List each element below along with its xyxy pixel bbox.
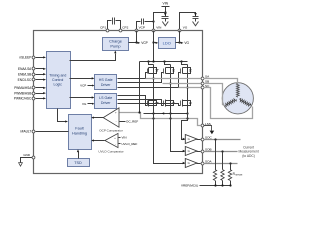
resistor R_SENSE phase C [213,170,216,181]
svg-text:VIN: VIN [156,26,161,30]
svg-text:LDO: LDO [163,40,171,45]
wire LDO output to VG [176,42,180,44]
block LDO [159,38,176,49]
wire drain rail VIN [140,61,188,63]
svg-text:(to ADC): (to ADC) [242,154,255,158]
svg-text:PWMB/HSB: PWMB/HSB [14,91,31,95]
svg-text:UVLO_REF: UVLO_REF [122,142,138,146]
wire logic to LS driver [70,97,93,99]
wire SOC tap down [215,140,217,170]
node LSS cross A [152,117,154,119]
pin PWMC/HSC [32,97,35,100]
motor 3-phase [222,83,253,114]
pin nFAULT [32,130,35,133]
op-amp UVLO comparator [105,133,118,147]
svg-text:PWMA/HSA: PWMA/HSA [14,86,32,90]
transistor HS FET 3 [180,60,182,62]
op-amp OCP comparator [103,108,119,127]
wire SOA tap down [230,164,232,170]
wire HS gate line phase 1 [118,73,148,79]
wire TSD to fault handling [78,152,80,159]
svg-text:Driver: Driver [101,83,111,87]
wire SOC to ADC [204,139,241,141]
body diode HS FET 1 [154,68,157,74]
wire VIN lead down to rail [153,31,155,62]
wire SOB tap down [222,152,224,170]
node SOB tap [221,150,223,152]
wire UVLO input UVLO_REF [119,143,121,145]
ground VG cap [193,22,199,26]
wire logic to fault handling [58,109,66,122]
body diode LS FET 2 [171,101,174,106]
block TSD [68,159,90,167]
pin SOA [201,162,204,165]
wire VCP pin lead up [137,22,141,31]
pin SOC [201,138,204,141]
pin SB [201,82,204,85]
svg-text:TSD: TSD [74,161,82,165]
svg-text:nFAULT: nFAULT [20,130,31,134]
wire OCP minus to OC_REF [120,121,126,123]
wire resistor bottoms to VREF rail [215,181,217,186]
wire LS source rail [144,113,188,115]
svg-text:nSLEEP: nSLEEP [19,56,31,60]
wire VCP pin internal lead [136,31,138,43]
resistor R_SENSE phase A [228,170,231,181]
wire UVLO output to fault handling [94,140,105,142]
svg-text:Timing and: Timing and [49,74,66,78]
node SOA tap [229,162,231,164]
pin VG [178,29,181,32]
transistor LS FET 3 [187,88,189,113]
wire fault handling to nFAULT pin [36,131,69,133]
wire sense phase C to amp SOC [182,113,188,140]
wire ENA/LSA to logic [36,68,44,70]
node VCP cap to VIN lead [152,20,154,22]
wire PWMC/HSC to logic [36,98,44,100]
svg-text:ENB/LSB: ENB/LSB [18,72,31,76]
node VIN supply junction [164,11,166,13]
svg-text:UVLO Comparator: UVLO Comparator [98,150,123,154]
pin CP2 [119,29,122,32]
body diode HS FET 2 [171,68,174,74]
svg-text:Driver: Driver [101,101,111,105]
svg-text:Handling: Handling [72,132,87,136]
node SOC tap [214,138,216,140]
transistor LS FET 1 [153,79,155,113]
pin SA [201,77,204,80]
pin SOB [201,150,204,153]
pin ENA/LSA [32,67,35,70]
wire phase A to pin SA [146,78,201,80]
pin ENC/LSC [32,78,35,81]
ground VIN cap [162,22,168,26]
wire rail to OCP vertical [139,62,141,113]
pin PWMA/HSA [32,86,35,89]
svg-text:VIN: VIN [163,2,169,6]
pin PWMB/HSB [32,92,35,95]
svg-text:Current: Current [243,145,254,149]
node LSS cross C [186,117,188,119]
resistor R_SENSE phase B [221,170,224,181]
svg-text:SOC: SOC [205,135,212,139]
svg-text:PWMC/HSC: PWMC/HSC [14,97,32,101]
ground LSS [210,131,215,135]
motor winding right [239,99,251,106]
svg-text:VIN: VIN [122,136,127,140]
svg-text:-: - [115,143,116,146]
pin GND [21,158,34,163]
transistor HS FET 2 [163,60,165,62]
wire PWMB/HSB to logic [36,93,44,95]
wire sense phase B to amp SOB [171,113,185,152]
block Fault Handling [69,115,92,150]
transistor HS FET 1 [147,60,149,62]
svg-text:OC_REF: OC_REF [126,120,138,124]
svg-text:SOB: SOB [205,147,212,151]
motor winding top [236,83,239,97]
pin CP1 [106,29,109,32]
svg-text:VCP: VCP [80,84,86,88]
capacitor VG bypass [194,13,197,16]
wire SOA to ADC [204,163,238,165]
wire SA to motor [204,79,238,84]
svg-text:Pump: Pump [110,43,120,48]
node LSS cross B [169,117,171,119]
node LS source B [169,112,171,114]
wire ENC/LSC to logic [36,79,44,81]
motor winding left [225,99,237,106]
svg-text:VG: VG [183,26,188,30]
wire HS gate line phase 3 [118,73,181,88]
node switch B [169,82,171,84]
arrow LS source rail to OCP [161,112,164,114]
wire sense phase A to amp SOA [154,113,185,164]
wire LS gate line phase 1 [118,96,148,106]
op-amp current sense SOC [185,135,197,144]
pin VCP [135,29,138,32]
node switch A [152,77,154,79]
svg-text:OCP Comparator: OCP Comparator [99,129,122,133]
pin SC [201,86,204,89]
wire VG pin lead to bypass cap [180,13,196,31]
wire ENB/LSB to logic [36,74,44,76]
svg-text:LS Gate: LS Gate [99,96,112,100]
wire charge pump output to VCP [129,42,137,44]
capacitor VIN bypass [165,13,167,17]
svg-text:Measurement: Measurement [239,150,259,154]
svg-text:Logic: Logic [54,83,63,87]
wire logic to HS driver [70,78,93,80]
pin VIN [152,29,155,32]
wire phase C to pin SC [179,87,201,89]
transistor LS FET 2 [170,84,172,113]
capacitor VCP bypass [141,19,143,25]
wire HS gate line phase 2 [118,73,164,83]
svg-text:G: G [188,137,190,141]
pin LSS [201,124,204,127]
node VIN to LDO tap [152,41,154,43]
wire nSLEEP to logic [36,57,44,59]
pin ENB/LSB [32,73,35,76]
svg-text:CP1: CP1 [100,26,106,30]
wire LS gate line phase 3 [118,104,181,106]
svg-text:SB: SB [205,79,209,83]
svg-text:G: G [188,149,190,153]
wire VIN supply to VIN pin [154,13,166,31]
wire PWMA/HSA to logic [36,87,44,89]
block HS Gate Driver [95,75,117,90]
block Timing and Control Logic [47,52,71,109]
node LS source A [152,112,154,114]
svg-text:VCP: VCP [139,26,145,30]
svg-text:VG: VG [82,102,87,106]
op-amp current sense SOA [185,159,197,168]
wire SOB to ADC [204,151,238,153]
svg-text:Fault: Fault [75,126,84,130]
svg-text:GND: GND [23,153,31,157]
node switch C [186,86,188,88]
wire SC to motor [204,88,253,119]
svg-text:Control: Control [52,78,64,82]
svg-text:ENA/LSA: ENA/LSA [18,67,32,71]
block Charge Pump [103,38,129,51]
svg-text:SOA: SOA [205,159,212,163]
pin nSLEEP [32,56,35,59]
capacitor CP1-CP2 flying cap [108,21,112,31]
svg-text:ENC/LSC: ENC/LSC [18,78,32,82]
svg-text:SENSE: SENSE [235,175,243,177]
wire UVLO input VIN [119,137,121,139]
svg-text:VREF(MCU): VREF(MCU) [181,184,198,188]
svg-text:VCP: VCP [141,41,148,45]
wire VG pin internal lead [179,31,181,43]
body diode HS FET 3 [188,68,191,74]
block LS Gate Driver [95,94,117,109]
body diode LS FET 1 [154,101,157,106]
wire phase B to pin SB [163,83,201,85]
wire logic to charge pump [70,54,116,61]
wire LSS grey path to pin [120,113,201,126]
svg-text:G: G [188,161,190,165]
svg-text:VG: VG [184,41,189,45]
IC boundary box [34,31,203,174]
svg-text:-: - [116,120,117,124]
wire OCP output to fault handling [94,117,104,119]
op-amp current sense SOB [185,147,197,156]
wire LS gate line phase 2 [118,100,164,106]
svg-text:HS Gate: HS Gate [99,78,113,82]
node LSS rail to OCP vertical [138,111,140,113]
wire SB to motor [204,84,225,106]
node LS source C [186,112,188,114]
body diode LS FET 3 [188,101,191,106]
svg-text:CP2: CP2 [122,26,128,30]
wire LSS to ground [204,126,212,131]
